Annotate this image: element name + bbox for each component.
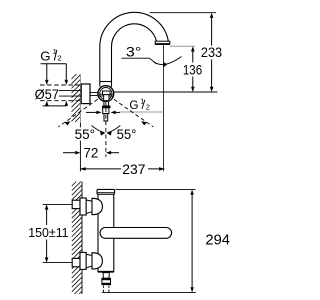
svg-text:237: 237: [122, 161, 145, 177]
svg-text:Ø57: Ø57: [35, 87, 59, 102]
svg-text:233: 233: [201, 44, 222, 60]
svg-text:72: 72: [83, 144, 98, 160]
svg-text:150±11: 150±11: [28, 225, 68, 240]
svg-text:294: 294: [205, 232, 230, 248]
svg-text:136: 136: [183, 62, 202, 78]
svg-text:2: 2: [57, 54, 61, 63]
svg-text:3°: 3°: [126, 45, 141, 60]
svg-text:G: G: [40, 49, 50, 64]
svg-text:55°: 55°: [75, 127, 96, 142]
svg-text:2: 2: [146, 102, 150, 111]
svg-text:G: G: [129, 98, 138, 112]
svg-text:55°: 55°: [117, 127, 137, 142]
